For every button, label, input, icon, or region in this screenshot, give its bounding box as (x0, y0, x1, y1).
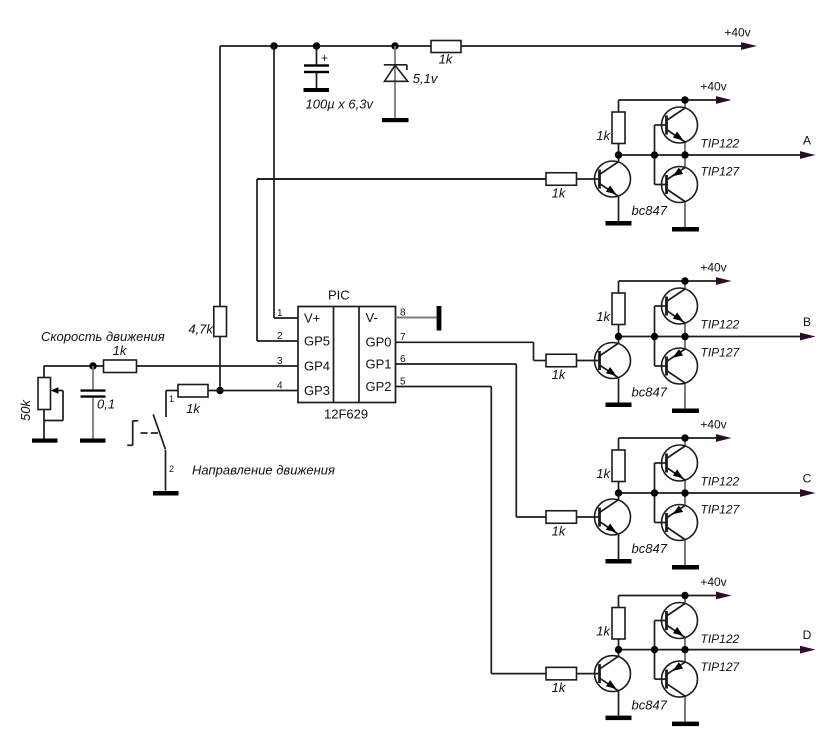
svg-text:TIP127: TIP127 (701, 503, 741, 517)
svg-text:100µ x 6,3v: 100µ x 6,3v (306, 97, 375, 112)
svg-text:GP1: GP1 (366, 357, 392, 372)
svg-text:PIC: PIC (328, 288, 350, 303)
svg-text:+40v: +40v (700, 418, 726, 432)
svg-text:GP2: GP2 (366, 379, 392, 394)
svg-text:bc847: bc847 (632, 541, 668, 556)
svg-text:GP4: GP4 (304, 359, 330, 374)
svg-text:GP3: GP3 (304, 383, 330, 398)
svg-text:1k: 1k (596, 624, 611, 639)
svg-text:TIP122: TIP122 (701, 318, 740, 332)
svg-text:1k: 1k (113, 343, 128, 358)
svg-text:Направление движения: Направление движения (192, 463, 335, 478)
svg-text:TIP127: TIP127 (701, 165, 741, 179)
svg-text:+40v: +40v (700, 575, 726, 589)
svg-text:1k: 1k (552, 524, 567, 539)
svg-text:Скорость движения: Скорость движения (41, 329, 165, 344)
svg-text:bc847: bc847 (632, 385, 668, 400)
svg-text:B: B (803, 315, 811, 329)
svg-text:4,7k: 4,7k (188, 322, 214, 337)
svg-text:2: 2 (169, 464, 174, 474)
svg-text:1k: 1k (596, 309, 611, 324)
svg-text:1k: 1k (552, 680, 567, 695)
svg-text:3: 3 (277, 356, 283, 367)
svg-text:C: C (803, 472, 812, 486)
svg-text:V+: V+ (304, 311, 320, 326)
svg-text:1k: 1k (552, 186, 567, 201)
svg-text:GP5: GP5 (304, 334, 330, 349)
svg-text:12F629: 12F629 (324, 407, 368, 422)
svg-text:A: A (803, 134, 811, 148)
svg-text:4: 4 (277, 381, 283, 392)
svg-text:50k: 50k (18, 399, 33, 421)
svg-text:TIP122: TIP122 (701, 632, 740, 646)
svg-text:1k: 1k (439, 52, 454, 67)
svg-text:+40v: +40v (700, 80, 726, 94)
svg-text:1k: 1k (596, 128, 611, 143)
svg-text:V-: V- (366, 310, 378, 325)
svg-text:TIP122: TIP122 (701, 475, 740, 489)
svg-text:7: 7 (400, 332, 406, 343)
svg-text:0,1: 0,1 (97, 397, 115, 412)
svg-text:1k: 1k (596, 466, 611, 481)
svg-text:1k: 1k (186, 401, 201, 416)
svg-text:TIP122: TIP122 (701, 137, 740, 151)
svg-text:bc847: bc847 (632, 698, 668, 713)
svg-text:D: D (803, 628, 812, 642)
svg-text:TIP127: TIP127 (701, 346, 741, 360)
svg-text:+40v: +40v (724, 26, 750, 40)
svg-text:TIP127: TIP127 (701, 660, 741, 674)
svg-text:1k: 1k (552, 367, 567, 382)
svg-text:2: 2 (277, 331, 283, 342)
svg-text:bc847: bc847 (632, 203, 668, 218)
svg-text:1: 1 (277, 308, 283, 319)
svg-text:GP0: GP0 (366, 335, 392, 350)
svg-text:5,1v: 5,1v (413, 71, 439, 86)
svg-text:1: 1 (169, 394, 174, 404)
svg-text:+40v: +40v (700, 261, 726, 275)
svg-text:+: + (321, 51, 328, 65)
